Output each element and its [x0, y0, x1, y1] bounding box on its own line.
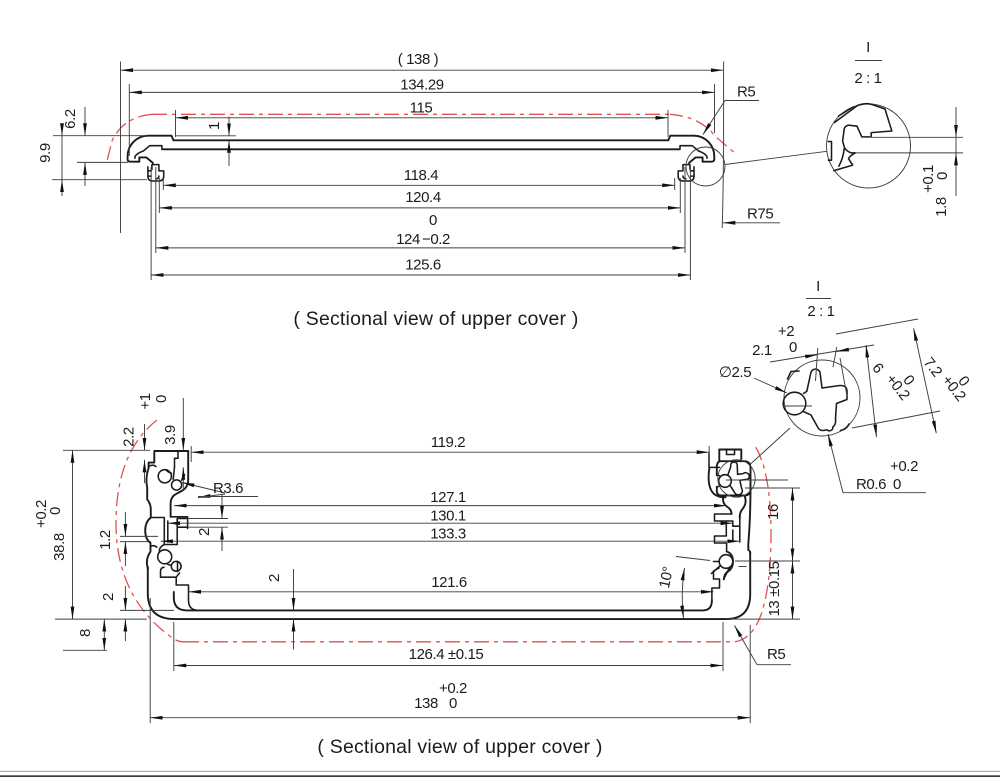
- svg-text:+1: +1: [137, 393, 154, 409]
- dimension 130.1: [168, 507, 733, 524]
- dimension 1 (recess depth): [176, 117, 236, 167]
- svg-text:2 : 1: 2 : 1: [854, 70, 881, 87]
- svg-text:38.8: 38.8: [51, 533, 68, 561]
- svg-text:134.29: 134.29: [400, 77, 444, 94]
- dimension (138): [121, 51, 724, 70]
- svg-text:125.6: 125.6: [405, 257, 441, 274]
- right wall : lower hook to floor: [712, 568, 720, 600]
- leader from indicator circle to detail view I: [725, 151, 827, 164]
- extension lines for 38.8 and 8: [63, 449, 150, 451]
- svg-text:1: 1: [206, 122, 223, 130]
- svg-text:0: 0: [47, 507, 64, 515]
- dimension 119.2: [191, 434, 709, 462]
- detail view I (2:1) circle: [827, 104, 911, 188]
- dimension 10 degrees: [656, 557, 710, 619]
- dimension 126.4 +-0.15: [174, 646, 723, 666]
- extension line left for (138): [120, 62, 122, 234]
- svg-text:115: 115: [410, 100, 433, 117]
- svg-text:I: I: [866, 39, 870, 56]
- label R5 with leader: [703, 84, 759, 135]
- svg-text:2: 2: [196, 528, 213, 536]
- svg-text:121.6: 121.6: [431, 574, 467, 591]
- detail view label I 2:1 (bottom): [806, 278, 835, 320]
- svg-text:138: 138: [414, 695, 438, 712]
- dimension 118.4: [163, 167, 674, 185]
- svg-text:−0.2: −0.2: [422, 231, 450, 248]
- svg-text:6: 6: [868, 360, 886, 377]
- svg-text:+0.2: +0.2: [890, 458, 918, 475]
- right wall : outer face: [748, 491, 750, 554]
- svg-text:127.1: 127.1: [430, 489, 466, 506]
- svg-text:8: 8: [77, 629, 94, 637]
- svg-text:2: 2: [266, 574, 283, 582]
- right wall : mid bracket with teeth: [715, 514, 740, 552]
- svg-text:R5: R5: [737, 84, 755, 101]
- detail view I : extension lines of slot: [870, 136, 963, 138]
- dimension 1.8 +0.1/0 (rotated): [920, 107, 956, 217]
- extension lines for 126.4: [173, 622, 175, 671]
- left wall : inner face upper and R3.6 fillet: [171, 451, 189, 517]
- dimension 8: [77, 619, 104, 650]
- dimension 6.2: [62, 107, 85, 186]
- dimension 138 +0.2/0: [150, 680, 750, 718]
- left wall : upper screw channel circles: [158, 470, 171, 483]
- dimension 133.3: [161, 526, 740, 543]
- detail boss hole centerline: [783, 405, 812, 407]
- cover left end: corner arc, lip and snap hook: [128, 136, 164, 181]
- svg-text:R5: R5: [767, 646, 785, 663]
- extension lines for 6.2 / 9.9: [53, 135, 148, 137]
- detail extension lines: [816, 348, 818, 381]
- dimension 6 +0.2/0 (detail, diagonal): [866, 345, 918, 437]
- svg-text:1.8: 1.8: [933, 197, 950, 217]
- extension line right for 134.29: [714, 84, 716, 133]
- svg-text:133.3: 133.3: [430, 526, 466, 543]
- svg-text:3.9: 3.9: [162, 425, 179, 445]
- detail view I (2:1) of screw boss : indicator circle on drawing: [718, 460, 755, 497]
- svg-text:124: 124: [396, 231, 420, 248]
- cover profile: bottom surface of plate: [163, 148, 680, 150]
- dimension 2.1 +2/0 (detail): [752, 323, 874, 362]
- svg-text:6.2: 6.2: [62, 109, 79, 129]
- label R3.6 with leaders: [182, 480, 258, 498]
- right wall : boss centerline: [726, 479, 788, 481]
- dimension 124 -0.2/0: [156, 212, 685, 248]
- right wall : lower boss with 10deg slot: [712, 552, 734, 580]
- svg-text:R3.6: R3.6: [213, 480, 243, 497]
- svg-text:0: 0: [934, 172, 951, 180]
- dimension 2.2 (left top, rotated): [121, 424, 145, 483]
- extension line left for 134.29: [128, 84, 130, 156]
- left wall : lower hook to floor: [161, 567, 199, 610]
- dimension 2 (bottom wall centre, rotated): [266, 569, 294, 650]
- svg-text:13 ±0.15: 13 ±0.15: [766, 561, 783, 616]
- svg-text:0: 0: [153, 395, 170, 403]
- label R0.6 +0.2/0 with leader: [828, 434, 926, 493]
- left wall : lower screw channel web: [151, 545, 178, 572]
- svg-text:0: 0: [893, 476, 901, 493]
- label R75 with leader: [723, 206, 780, 223]
- right wall : screw boss body with cross slot: [717, 461, 751, 495]
- svg-text:R0.6: R0.6: [856, 476, 886, 493]
- left wall : mid fin with slot: [151, 517, 188, 545]
- svg-text:( Sectional view of upper cove: ( Sectional view of upper cover ): [317, 736, 602, 758]
- detail view boss slot geometry at 2x: [783, 369, 849, 431]
- svg-text:16: 16: [765, 504, 782, 520]
- svg-text:( 138 ): ( 138 ): [398, 51, 439, 68]
- right wall : inner fin and shelf left of boss: [709, 454, 719, 468]
- svg-text:R75: R75: [747, 206, 773, 223]
- left wall : lower screw channel circles: [158, 550, 172, 564]
- svg-text:9.9: 9.9: [37, 143, 54, 163]
- svg-text:( Sectional view of upper cove: ( Sectional view of upper cover ): [293, 308, 578, 330]
- cover profile: top outer surface right segment: [668, 136, 694, 141]
- dimension 13 +-0.15 (right, rotated): [766, 561, 793, 619]
- svg-text:118.4: 118.4: [404, 167, 438, 184]
- extension lines below left hook: [162, 178, 164, 190]
- right wall : neck below boss: [723, 496, 732, 515]
- svg-text:2: 2: [100, 593, 117, 601]
- svg-text:10°: 10°: [656, 565, 677, 590]
- svg-text:+2: +2: [778, 323, 794, 340]
- detail view I label: [854, 39, 882, 87]
- extension lines below right hook: [674, 178, 676, 190]
- dimension 7.2 +0.2/0 (detail, diagonal): [914, 328, 973, 433]
- label diameter 2.5 with leader: [719, 364, 787, 393]
- svg-text:I: I: [816, 278, 820, 295]
- extension line right for (138) with R75 arc: [722, 62, 723, 229]
- dimension 3.9 +1/0 (rotated): [137, 393, 183, 490]
- svg-text:120.4: 120.4: [405, 189, 441, 206]
- cover right end: mirrored corner arc, lip and snap hook: [678, 136, 714, 181]
- svg-text:2 : 1: 2 : 1: [807, 303, 834, 320]
- dimension 120.4: [159, 189, 680, 208]
- svg-text:∅2.5: ∅2.5: [719, 364, 751, 381]
- right wall : lower boss centerline tick: [739, 566, 747, 568]
- leader from boss to detail view: [750, 428, 790, 465]
- label R5 (bottom right) with leader: [735, 626, 792, 665]
- left wall : top cap: [149, 451, 189, 468]
- right wall : top tab: [719, 450, 741, 462]
- svg-text:0: 0: [429, 212, 437, 229]
- dimension 2 (mid fin, rotated): [188, 494, 228, 551]
- red phantom mating-body outline (top view): [107, 114, 736, 161]
- left wall : upper screw channel web: [149, 465, 185, 480]
- dimension 38.8 +0.2/0: [33, 450, 73, 619]
- cover profile: top outer surface left segment: [148, 136, 174, 141]
- dimension 1.2 (left mid, rotated): [97, 512, 158, 566]
- dimension 134.29: [129, 77, 714, 94]
- svg-text:130.1: 130.1: [430, 507, 466, 524]
- svg-text:2.1: 2.1: [752, 342, 772, 359]
- extension lines for 138: [149, 598, 151, 723]
- extension lines for 115: [175, 110, 177, 137]
- left wall : cap slot step: [175, 452, 179, 467]
- dimension 16 (right, rotated): [726, 488, 800, 619]
- dimension 121.6: [189, 574, 714, 592]
- svg-text:119.2: 119.2: [431, 434, 465, 451]
- red phantom upper-cover outline (bottom view): [116, 420, 771, 642]
- detail indicator circle I around right hook: [686, 147, 725, 186]
- svg-text:0: 0: [449, 695, 457, 712]
- left wall : outer face with bulges: [145, 468, 151, 569]
- svg-text:0: 0: [789, 339, 797, 356]
- dimension 115: [176, 100, 669, 118]
- dimension 2 (left bottom wall, rotated): [100, 586, 174, 641]
- detail view I : hook geometry at 2x: [828, 104, 892, 171]
- body inner floor with corners: [174, 592, 712, 610]
- cover profile: recessed top surface (115 wide): [174, 139, 669, 141]
- bottom page rule lines: [0, 771, 1000, 772]
- svg-text:1.2: 1.2: [97, 530, 114, 550]
- right wall : web U below boss: [709, 467, 726, 497]
- body outer bottom surface with corners: [148, 552, 750, 619]
- dimension 9.9: [37, 124, 62, 196]
- svg-text:126.4 ±0.15: 126.4 ±0.15: [409, 646, 484, 663]
- svg-text:2.2: 2.2: [121, 427, 138, 447]
- dimension 127.1: [174, 489, 726, 506]
- detail view circle (2:1 boss): [784, 360, 860, 436]
- dimension 125.6: [151, 257, 690, 276]
